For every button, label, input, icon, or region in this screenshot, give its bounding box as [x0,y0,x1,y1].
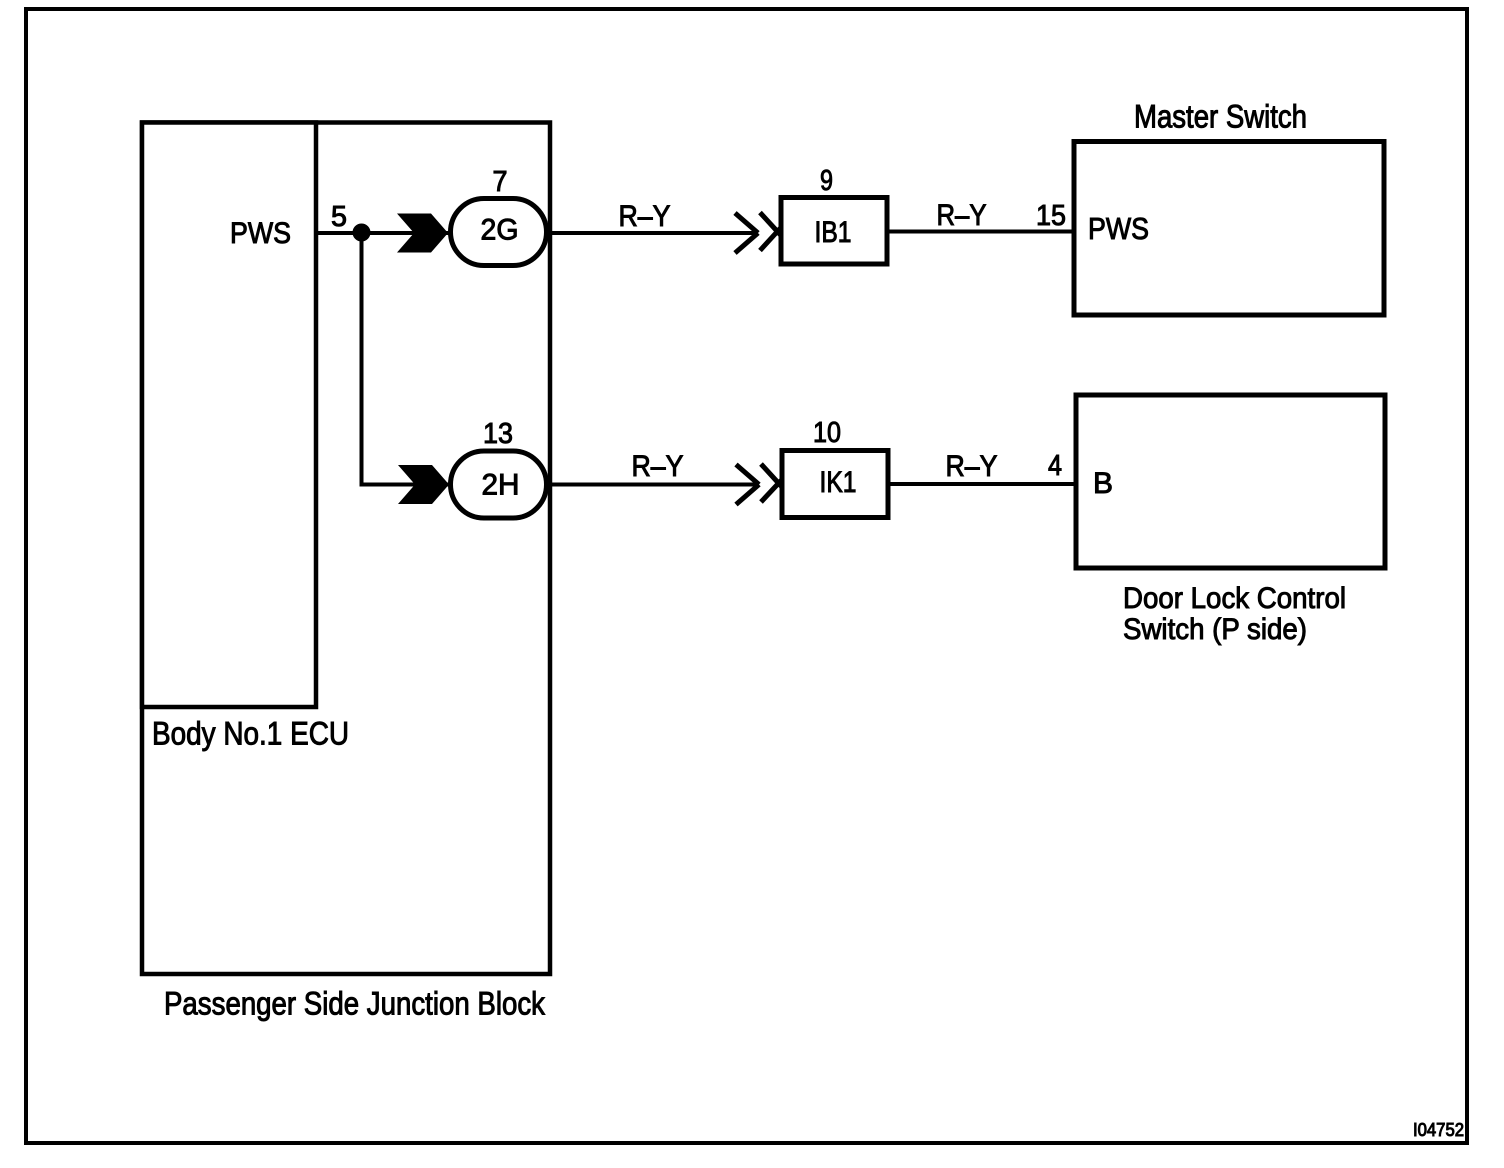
in-line connector chevrons (row 1) [735,213,782,254]
label: Passenger Side Junction Block [164,986,546,1022]
pin 9 [820,165,833,197]
svg-text:R–Y: R–Y [632,450,684,483]
svg-text:Passenger Side Junction Block: Passenger Side Junction Block [164,986,546,1022]
svg-text:R–Y: R–Y [937,199,987,232]
wire: 2G to chevron connector [546,231,758,235]
svg-text:9: 9 [820,165,833,197]
pin 10 [813,417,841,449]
label: Door Lock Control Switch (P side) [1123,582,1346,646]
wire: 2H to chevron connector [546,483,759,487]
svg-text:IK1: IK1 [820,466,857,499]
svg-text:B: B [1093,467,1113,500]
svg-text:PWS: PWS [1088,211,1149,246]
svg-text:Master Switch: Master Switch [1134,99,1307,135]
wire label R–Y (IK1 to door lock switch) [946,450,998,483]
junction connector IK1 [782,451,888,518]
wire: junction down [360,233,364,485]
in-line connector chevrons (row 2) [736,464,783,505]
svg-text:10: 10 [813,417,841,449]
svg-text:7: 7 [493,166,508,198]
ECU block (Body No.1 ECU) [142,123,316,708]
arrow into connector 2H [398,465,449,504]
net label B (door lock switch) [1093,467,1113,500]
connector 2H [451,451,547,518]
wire label R–Y (IB1 to master switch) [937,199,987,232]
svg-text:2G: 2G [481,214,519,247]
svg-text:I04752: I04752 [1413,1120,1464,1140]
pin 7 [493,166,508,198]
wire label R–Y (2G to IB1) [619,200,671,233]
net label PWS (master switch) [1088,211,1149,246]
door lock control switch block [1076,395,1385,568]
node: junction dot [353,224,371,242]
label: Master Switch [1134,99,1307,135]
pin 5 [331,201,347,233]
svg-text:4: 4 [1048,450,1062,482]
svg-text:13: 13 [483,418,513,450]
figure number I04752 [1413,1120,1464,1140]
master switch block [1074,142,1384,316]
svg-text:IB1: IB1 [815,216,852,249]
pin 13 [483,418,513,450]
connector 2G [451,199,547,266]
svg-text:R–Y: R–Y [619,200,671,233]
net label PWS (ECU terminal) [230,217,291,250]
label: Body No.1 ECU [152,716,349,752]
wire: junction to connector 2H [360,483,451,487]
junction connector IB1 [781,198,887,265]
pin 15 [1036,200,1066,232]
wire: IK1 to door lock switch pin 4 [888,482,1076,486]
svg-text:Switch (P side): Switch (P side) [1123,613,1307,646]
svg-text:Door Lock Control: Door Lock Control [1123,582,1346,615]
svg-text:2H: 2H [482,469,520,502]
pin 4 [1048,450,1062,482]
wire: ECU pin 5 to connector 2G [316,231,450,235]
arrow into connector 2G [397,214,448,253]
wire: IB1 to master switch pin 15 [888,230,1074,234]
junction block (Passenger Side Junction Block) [142,123,550,975]
svg-text:5: 5 [331,201,347,233]
svg-text:PWS: PWS [230,217,291,250]
svg-text:Body No.1 ECU: Body No.1 ECU [152,716,349,752]
svg-text:15: 15 [1036,200,1066,232]
wire label R–Y (2H to IK1) [632,450,684,483]
svg-text:R–Y: R–Y [946,450,998,483]
